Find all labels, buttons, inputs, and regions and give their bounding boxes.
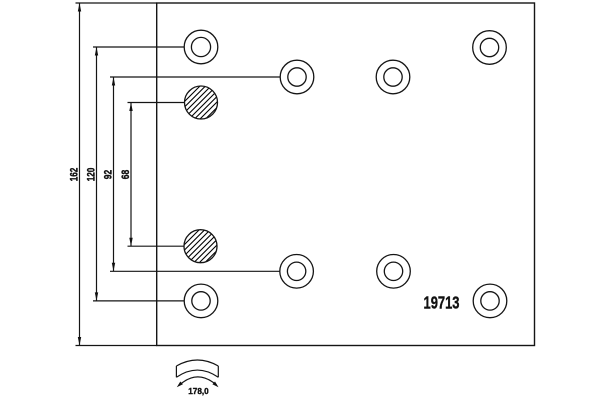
svg-text:19713: 19713 [424,293,460,313]
svg-text:162: 162 [68,168,80,182]
svg-text:68: 68 [120,170,132,179]
svg-text:120: 120 [85,168,97,182]
svg-text:178,0: 178,0 [188,386,209,396]
svg-text:92: 92 [102,170,114,179]
